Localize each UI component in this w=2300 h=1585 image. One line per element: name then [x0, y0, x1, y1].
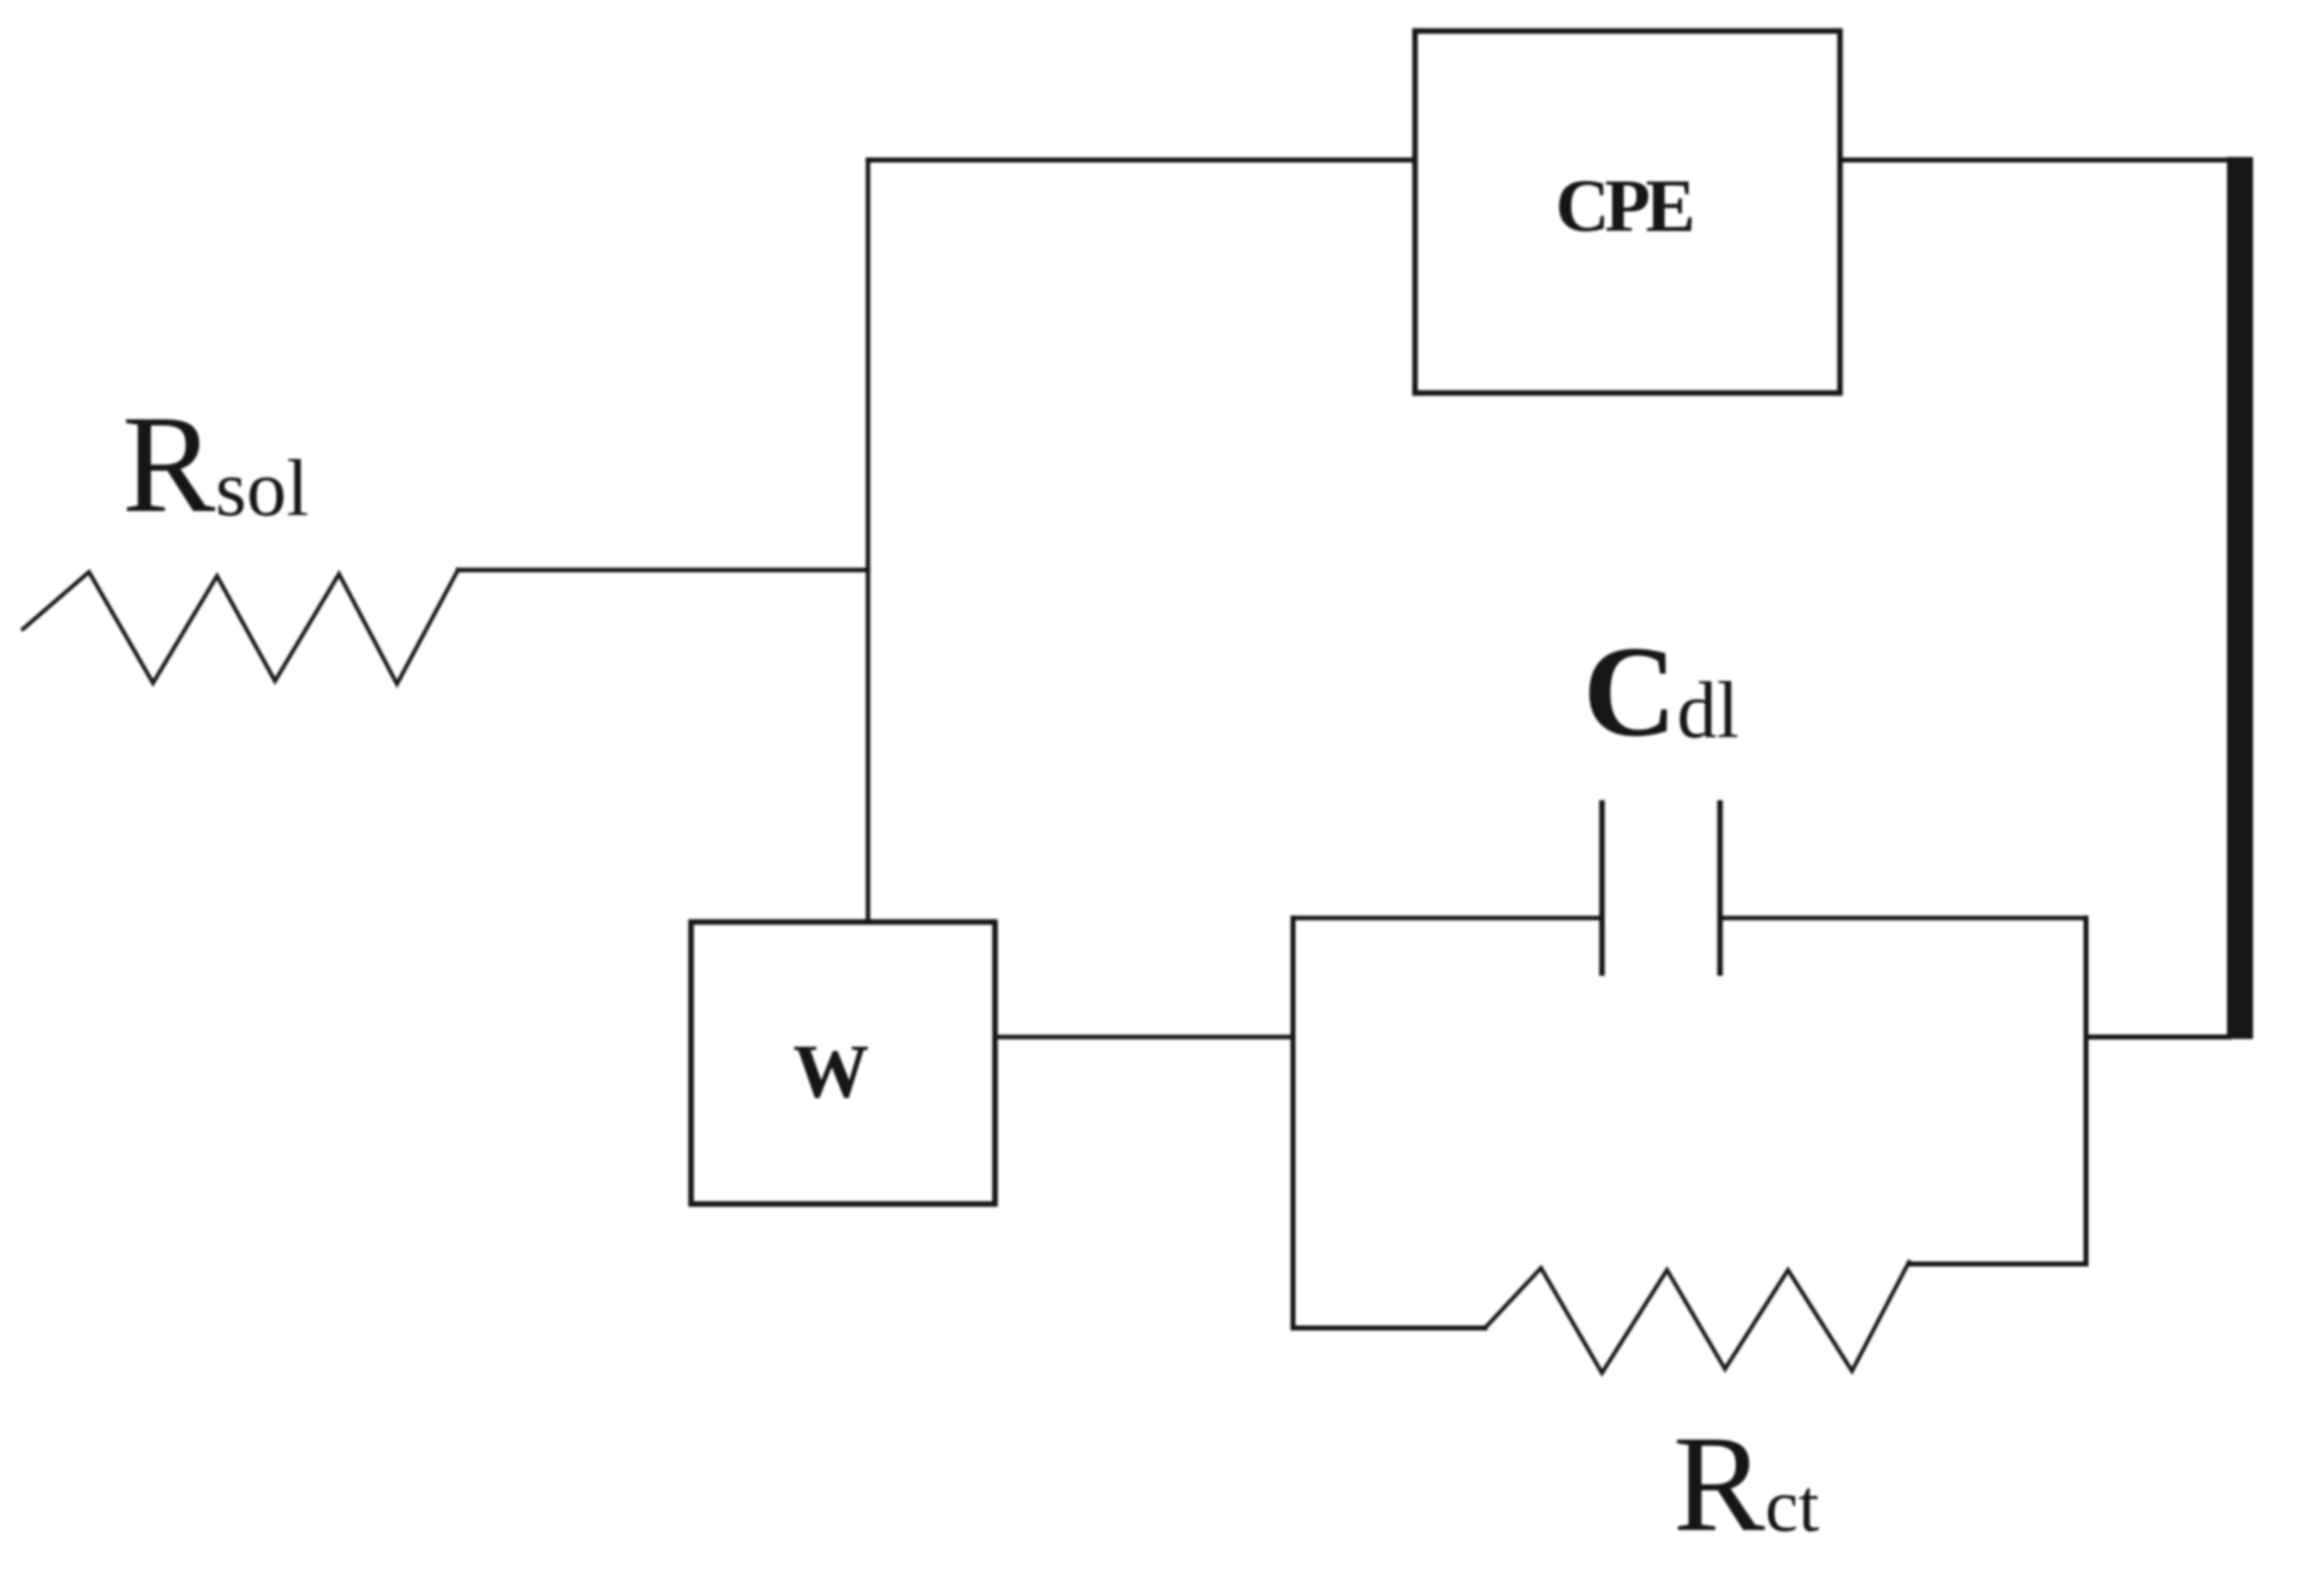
wire capacitor to node C: [1720, 916, 2086, 921]
capacitor Cdl left plate: [1599, 803, 1605, 973]
wire node C right vertical: [2084, 918, 2089, 1264]
wire node B to capacitor left plate: [1293, 916, 1602, 921]
wire node B bottom to Rct: [1293, 1326, 1485, 1331]
wire node A to CPE: [868, 158, 1415, 163]
resistor Rct: [1485, 1262, 1909, 1373]
electrode bar: [2227, 157, 2253, 1039]
wire W to node B: [995, 1035, 1293, 1040]
capacitor Cdl right plate: [1717, 803, 1723, 973]
svg-text:W: W: [793, 1030, 869, 1114]
wire Rsol to node A: [458, 568, 868, 573]
wire node A vertical: [866, 160, 871, 922]
wire CPE to electrode bar: [1840, 158, 2230, 163]
resistor Rsol: [23, 570, 458, 684]
wire node C to electrode bar: [2086, 1035, 2229, 1040]
CPE box U1: [1415, 31, 1840, 393]
svg-text:CPE: CPE: [1556, 165, 1693, 248]
wire Rct to node C: [1909, 1262, 2086, 1267]
Warburg element W box: [691, 922, 995, 1204]
wire node B left vertical: [1291, 918, 1296, 1328]
